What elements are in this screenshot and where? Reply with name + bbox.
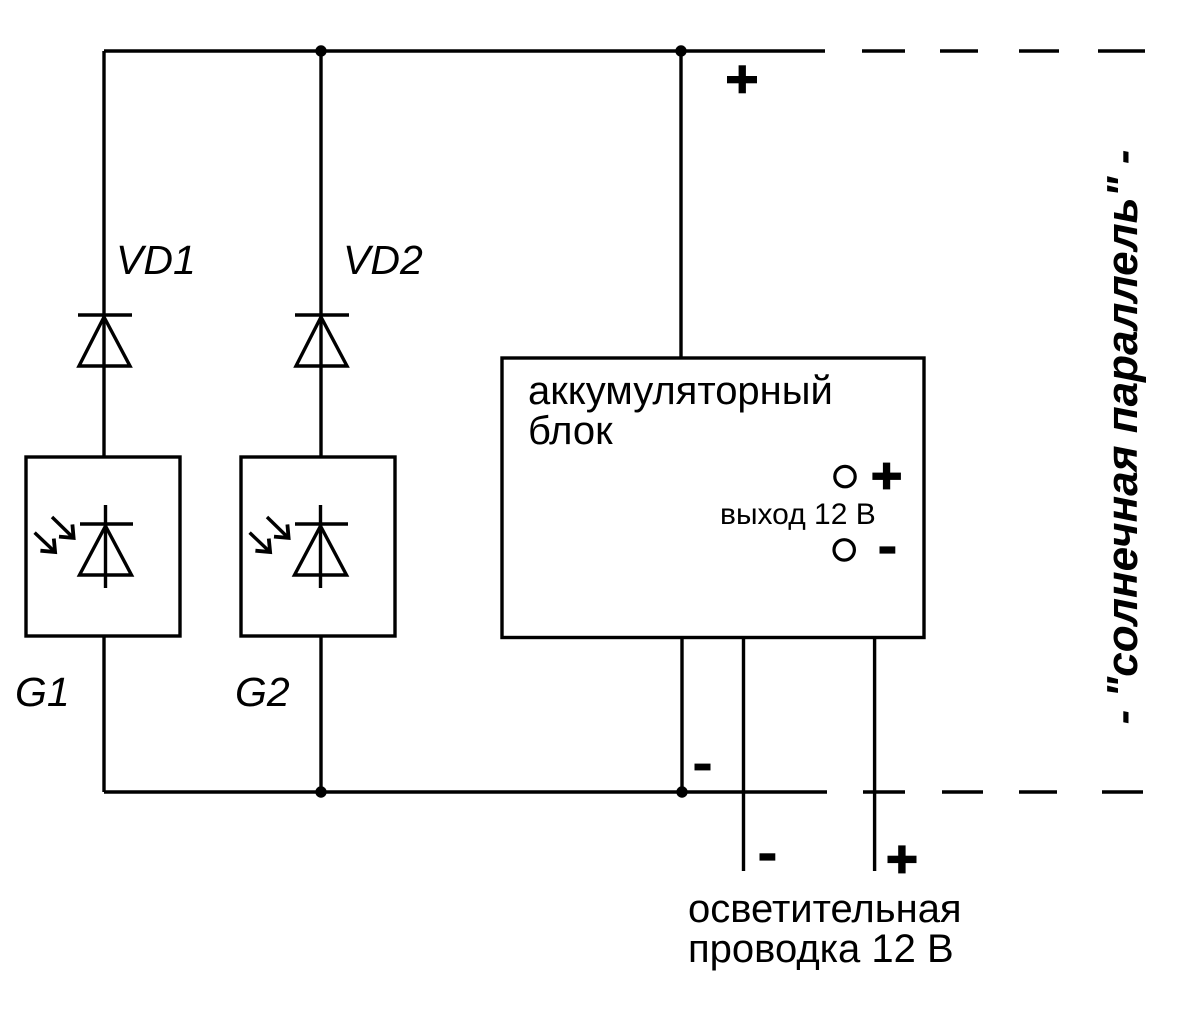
wire: lighting plus lead <box>873 637 876 871</box>
wire: top + rail dashed continuation <box>862 49 1145 52</box>
wire: bottom - rail solid segment <box>104 790 827 793</box>
svg-text:VD2: VD2 <box>343 237 423 283</box>
wire: battery minus lead to bottom rail <box>680 637 683 792</box>
svg-text:аккумуляторный: аккумуляторный <box>528 369 833 413</box>
svg-text:VD1: VD1 <box>116 237 196 283</box>
terminal circle: battery - output <box>834 540 854 560</box>
wire: left branch from top rail through VD1 to G1 <box>102 51 105 457</box>
diode VD1 <box>78 315 132 366</box>
svg-text:G2: G2 <box>235 669 290 715</box>
solar panel G1 box <box>26 457 180 636</box>
svg-text:осветительная: осветительная <box>688 887 962 931</box>
terminal circle: battery + output <box>835 466 855 486</box>
svg-text:проводка 12 В: проводка 12 В <box>688 927 954 971</box>
label: + of battery output <box>872 463 901 490</box>
svg-text:- "солнечная параллель" -: - "солнечная параллель" - <box>1098 150 1147 725</box>
wire: G2 branch from top rail through VD2 to G2 <box>319 51 322 457</box>
svg-text:выход 12 В: выход 12 В <box>720 498 876 531</box>
label: + of lighting wiring <box>888 845 917 873</box>
label: - of battery output <box>880 546 896 553</box>
wire: lighting minus lead <box>742 637 745 871</box>
solar panel G2 box <box>241 457 395 636</box>
wire: G1 to bottom rail <box>102 636 105 792</box>
battery block box <box>502 358 924 638</box>
light arrows of G2 <box>250 517 289 552</box>
wire: bottom rail dashed continuation <box>863 790 1143 793</box>
label: - of lighting wiring <box>760 853 776 860</box>
photodiode symbol inside G2 <box>295 505 349 588</box>
wire: battery block to top rail <box>679 51 682 358</box>
node: bottom junction of G2 branch <box>315 786 326 797</box>
node: bottom junction of battery branch <box>676 786 687 797</box>
wire: G2 to bottom rail <box>319 636 322 792</box>
label: - polarity of bottom rail <box>695 764 711 771</box>
node: top junction of battery branch <box>675 45 686 56</box>
photodiode symbol inside G1 <box>80 505 134 588</box>
light arrows of G1 <box>35 517 74 552</box>
label: + polarity of top rail <box>727 65 757 93</box>
node: top junction of G2 branch <box>315 45 326 56</box>
wire: top + rail solid segment <box>104 49 825 52</box>
svg-text:блок: блок <box>528 409 613 453</box>
svg-text:G1: G1 <box>15 669 70 715</box>
diode VD2 <box>295 315 349 366</box>
